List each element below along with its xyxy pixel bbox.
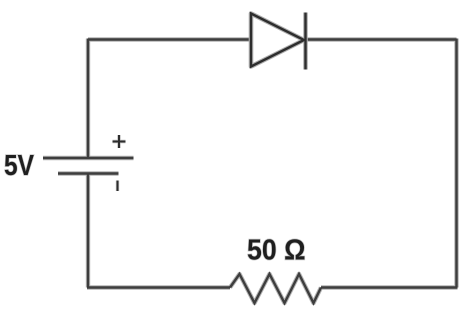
svg-text:50 Ω: 50 Ω: [247, 235, 306, 267]
svg-text:5V: 5V: [4, 150, 35, 182]
